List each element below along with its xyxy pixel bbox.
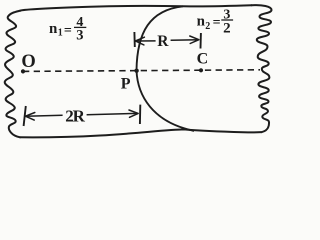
svg-text:=: = — [64, 23, 72, 38]
dimension R: right arrowhead (points right) — [190, 36, 199, 44]
svg-text:2R: 2R — [65, 107, 85, 126]
dimension R: left tick — [133, 32, 135, 47]
dimension 2R: right tick — [139, 105, 141, 124]
dimension 2R: right line segment — [87, 113, 138, 114]
svg-text:n: n — [197, 14, 206, 30]
dimension R: right tick — [200, 33, 202, 49]
svg-text:3: 3 — [76, 27, 83, 43]
dimension 2R: left line segment — [25, 114, 62, 117]
torn paper right edge (squiggle) — [252, 5, 272, 132]
torn paper top edge — [21, 5, 252, 10]
svg-text:1: 1 — [58, 28, 63, 39]
dimension R: left line segment — [135, 40, 155, 42]
torn paper bottom edge — [20, 129, 261, 137]
dimension R: right line segment — [171, 39, 199, 42]
dimension R: left arrowhead (points left) — [135, 37, 144, 45]
point O (object) dot — [21, 69, 25, 73]
torn paper left edge (squiggle) — [5, 11, 21, 138]
svg-text:O: O — [21, 52, 35, 72]
svg-text:=: = — [213, 15, 221, 30]
svg-text:2: 2 — [205, 21, 210, 32]
svg-text:2: 2 — [223, 21, 231, 37]
refracting spherical surface (arc through P) — [137, 6, 195, 131]
svg-text:C: C — [197, 50, 209, 67]
optical axis (dashed line O-P-C) — [23, 70, 260, 72]
dimension 2R: right arrowhead (points right) — [129, 110, 138, 117]
svg-text:P: P — [121, 75, 131, 92]
svg-text:R: R — [157, 33, 169, 50]
dimension 2R: left tick — [24, 106, 26, 126]
dimension 2R: left arrowhead (points left) — [25, 113, 34, 121]
svg-text:n: n — [49, 21, 58, 37]
point P (pole) dot — [134, 69, 138, 73]
point C (centre of curvature) dot — [199, 68, 203, 72]
